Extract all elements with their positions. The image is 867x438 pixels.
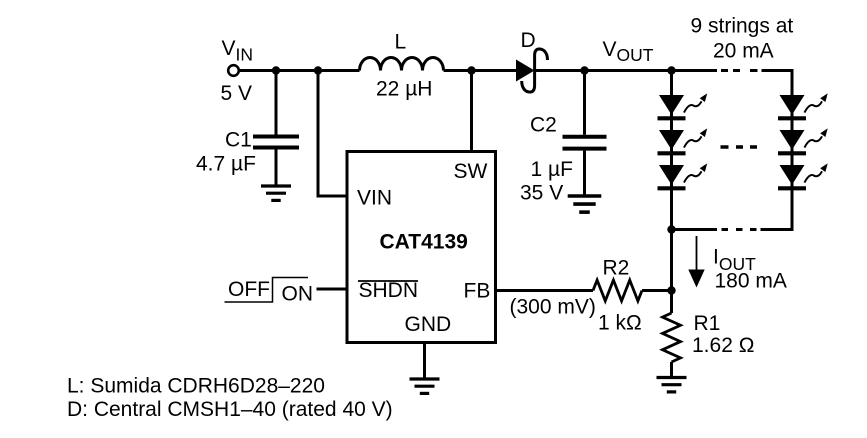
svg-text:4.7 µF: 4.7 µF xyxy=(196,153,256,176)
svg-text:C2: C2 xyxy=(530,114,557,137)
svg-text:SHDN: SHDN xyxy=(359,279,419,302)
svg-text:180 mA: 180 mA xyxy=(715,270,787,293)
svg-text:R1: R1 xyxy=(694,312,721,335)
svg-text:C1: C1 xyxy=(225,129,252,152)
svg-text:OFF: OFF xyxy=(228,278,270,301)
svg-text:D: Central CMSH1–40 (rated 40: D: Central CMSH1–40 (rated 40 V) xyxy=(67,398,393,421)
svg-text:SW: SW xyxy=(454,160,488,183)
svg-text:VIN: VIN xyxy=(357,187,392,210)
svg-text:1.62 Ω: 1.62 Ω xyxy=(692,334,754,357)
svg-text:GND: GND xyxy=(405,313,452,336)
svg-text:35 V: 35 V xyxy=(520,182,563,205)
svg-text:CAT4139: CAT4139 xyxy=(380,231,468,254)
svg-text:L: L xyxy=(395,31,407,54)
svg-text:D: D xyxy=(521,29,536,52)
svg-text:9 strings at: 9 strings at xyxy=(691,15,794,38)
svg-text:VIN: VIN xyxy=(222,37,254,64)
svg-text:ON: ON xyxy=(282,282,314,305)
svg-text:1 kΩ: 1 kΩ xyxy=(598,312,642,335)
svg-text:VOUT: VOUT xyxy=(603,38,654,65)
svg-text:22 µH: 22 µH xyxy=(376,78,432,101)
svg-text:1 µF: 1 µF xyxy=(531,158,573,181)
svg-text:5 V: 5 V xyxy=(221,82,253,105)
svg-text:R2: R2 xyxy=(603,257,630,280)
svg-text:(300 mV): (300 mV) xyxy=(510,296,596,319)
svg-text:20 mA: 20 mA xyxy=(713,40,774,63)
svg-text:L: Sumida CDRH6D28–220: L: Sumida CDRH6D28–220 xyxy=(67,375,325,398)
svg-text:FB: FB xyxy=(464,280,491,303)
